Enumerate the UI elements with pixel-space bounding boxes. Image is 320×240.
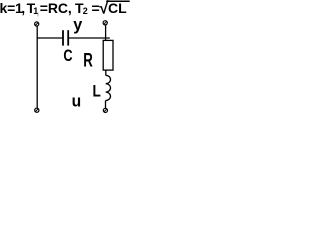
- svg-text:R: R: [83, 49, 93, 71]
- terminal bottom-right: [103, 108, 107, 112]
- wire y-terminal to resistor top: [105, 25, 107, 40]
- wire left vertical: [36, 26, 38, 108]
- faint lead above top-left terminal: [37, 13, 39, 17]
- svg-text:y: y: [73, 14, 83, 33]
- wire inductor to bottom terminal: [105, 100, 107, 108]
- terminal bottom-left: [35, 108, 39, 112]
- svg-text:k=1: k=1: [0, 0, 23, 16]
- svg-text:L: L: [93, 82, 101, 101]
- svg-text:CL: CL: [108, 0, 127, 16]
- wire resistor to inductor: [105, 70, 107, 75]
- capacitor C plates: [63, 30, 68, 45]
- wire top horizontal left segment: [37, 37, 63, 39]
- title text k=1, T1 =RC, T2 =sqrt(CL): [0, 0, 130, 17]
- terminal top-left: [35, 22, 39, 26]
- terminal output y: [103, 21, 107, 25]
- svg-text:u: u: [72, 92, 82, 111]
- svg-text:,: ,: [21, 0, 25, 16]
- inductor L coil: [106, 75, 111, 100]
- svg-text:=RC,: =RC,: [40, 0, 72, 16]
- svg-text:C: C: [63, 46, 72, 65]
- resistor R body: [103, 40, 113, 70]
- wire top horizontal right segment: [69, 37, 110, 39]
- svg-text:2: 2: [83, 6, 88, 16]
